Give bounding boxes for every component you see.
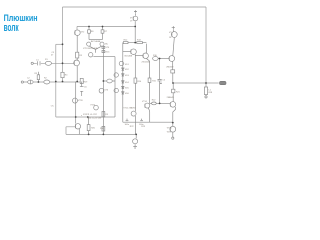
transistor Q9 cascode xyxy=(131,49,137,55)
capacitor C1 xyxy=(38,61,40,65)
node comp xyxy=(159,58,161,60)
wire Q1 emitter xyxy=(76,66,78,82)
resistor R17 xyxy=(171,70,175,73)
resistor R8 xyxy=(102,46,105,48)
svg-text:x: x xyxy=(81,115,82,117)
resistor R19 xyxy=(80,78,83,83)
resistor R3 shunt xyxy=(37,72,39,82)
diode D3 xyxy=(122,81,124,83)
diode D1 xyxy=(122,68,124,70)
transistor Q19 top cs xyxy=(133,16,138,21)
wire mid link xyxy=(103,80,107,82)
wire bottom rail stub xyxy=(66,127,76,135)
wire R17 to out xyxy=(172,73,174,83)
resistor R4 feedback on rail xyxy=(61,72,64,77)
resistor R11 xyxy=(107,79,112,83)
svg-text:2SC1845: 2SC1845 xyxy=(142,61,151,63)
diode D5b xyxy=(122,92,124,94)
wire bottom rail xyxy=(66,133,136,135)
node bus a xyxy=(88,26,90,28)
wire left rail upper xyxy=(62,7,64,72)
wire pair top bracket xyxy=(89,39,103,41)
node bus b xyxy=(102,26,104,28)
node fb wire xyxy=(55,81,57,83)
label net mark xyxy=(160,82,162,85)
resistor R7 bus drop xyxy=(102,27,104,40)
resistor R15 xyxy=(148,78,151,83)
resistor R1 xyxy=(45,61,51,65)
wire top bus xyxy=(77,26,135,28)
wire feedback bottom xyxy=(56,116,115,118)
wire top rail xyxy=(63,6,207,8)
resistor R9 xyxy=(102,112,105,117)
node vas top xyxy=(134,42,136,44)
wire Q18 collector xyxy=(172,29,174,31)
transistor Q20 left low xyxy=(75,82,77,124)
wire Q9 base xyxy=(123,51,131,53)
node out1 xyxy=(172,82,174,84)
resistor R10 xyxy=(102,126,105,131)
svg-text:2SB649: 2SB649 xyxy=(167,97,175,99)
wire VAS out xyxy=(153,58,170,60)
resistor R12 xyxy=(123,42,128,44)
wire pair emitters join xyxy=(90,46,102,53)
wire Q15 collector xyxy=(172,93,174,102)
node rail input xyxy=(62,62,64,64)
wire Q1 collector xyxy=(76,58,78,60)
transistor Q2 current source xyxy=(75,30,81,36)
resistor R20 xyxy=(87,125,90,131)
wire feedback vertical xyxy=(55,44,57,117)
node vbe xyxy=(172,122,174,124)
wire tail to rail xyxy=(93,56,115,58)
transistor Q10 xyxy=(119,61,123,65)
wire input top xyxy=(33,62,74,64)
output terminal X5 xyxy=(220,81,227,84)
diode D2 xyxy=(122,74,124,76)
resistor R13 xyxy=(137,42,143,44)
transistor Q3 input pair left xyxy=(87,42,91,46)
transistor Q18 predriver xyxy=(171,32,177,38)
svg-text:2SD669: 2SD669 xyxy=(166,67,174,69)
wire Q4 collector chain xyxy=(102,47,104,135)
resistor R6 bus drop xyxy=(88,27,90,40)
wire R5 to current source xyxy=(76,36,78,53)
svg-text:BC546B: BC546B xyxy=(91,41,101,43)
node mid xyxy=(103,80,105,82)
node out2 xyxy=(205,82,207,84)
wire Q12 stem xyxy=(135,134,136,146)
node Q1 emitter xyxy=(76,81,78,83)
transistor Q12 output low xyxy=(133,139,138,144)
svg-text:BC546B: BC546B xyxy=(125,56,133,58)
wire VAS top xyxy=(123,42,147,44)
wire lower driver base xyxy=(150,102,171,104)
wire R20 chain xyxy=(88,117,90,134)
wire right rail xyxy=(205,7,207,83)
transistor Q14 xyxy=(145,103,150,108)
resistor R22 xyxy=(152,102,157,105)
wire left rail lower xyxy=(62,78,64,82)
capacitor C4 xyxy=(140,119,143,123)
resistor R8b xyxy=(102,50,105,52)
transistor Q4 input pair right xyxy=(100,42,104,46)
power flag plus top mid xyxy=(134,10,137,13)
wire bus to VAS xyxy=(134,27,136,43)
resistor R16 xyxy=(153,57,159,61)
node drv xyxy=(159,103,161,105)
resistor R2 xyxy=(44,80,50,84)
svg-text:VT11 2SA992: VT11 2SA992 xyxy=(123,107,136,110)
node fb2 xyxy=(87,116,89,118)
power flag minus xyxy=(133,147,137,149)
wire input bottom xyxy=(23,81,80,83)
wire output line xyxy=(173,82,219,84)
wire bus corner drop xyxy=(76,27,78,31)
wire Q17 collector xyxy=(173,38,175,56)
node bot3 xyxy=(135,134,137,136)
resistor R14 xyxy=(134,78,137,83)
svg-text:VT3 BC546B: VT3 BC546B xyxy=(83,48,98,50)
input terminal X2 xyxy=(21,81,23,83)
svg-text:R24 0.22 5W: R24 0.22 5W xyxy=(87,118,102,120)
transistor Q1 xyxy=(74,60,80,66)
capacitor C2 xyxy=(28,80,33,84)
terminal X3 xyxy=(172,137,174,139)
transistor Q15 lower driver xyxy=(170,102,176,108)
transistor Q7 xyxy=(114,73,118,77)
capacitor C5 xyxy=(158,80,162,81)
transistor Q17 driver xyxy=(169,56,175,62)
wire lower bias xyxy=(123,121,173,123)
resistor R5 xyxy=(76,52,79,58)
transistor Q5 tail source xyxy=(89,53,93,57)
wire Q21 emitter xyxy=(78,129,80,135)
diode D4 xyxy=(122,86,124,88)
capacitor C3 xyxy=(126,119,129,123)
node bot1 xyxy=(88,134,90,136)
input terminal X1 xyxy=(31,62,33,64)
power flag plus top right xyxy=(172,26,175,29)
wire Q17 emitter xyxy=(172,61,174,69)
zobel R18 xyxy=(205,83,207,87)
wire feedback tap xyxy=(56,43,63,45)
svg-text:100n: 100n xyxy=(125,124,129,126)
wire Q19 stem xyxy=(134,13,136,26)
wire Q14 emitter xyxy=(148,108,150,122)
resistor R21 xyxy=(172,89,175,93)
node input shunt xyxy=(38,81,40,83)
transistor Q21 xyxy=(75,124,80,129)
wire Q9 emitter tap xyxy=(135,55,143,57)
node bot2 xyxy=(103,134,105,136)
wire Q15 emitter xyxy=(173,107,176,123)
wire diode chain vertical xyxy=(122,43,124,123)
svg-text:R21 0.22: R21 0.22 xyxy=(83,114,98,116)
transistor Q6 xyxy=(99,88,104,93)
wire mid link2 xyxy=(112,57,115,117)
wire comp vertical xyxy=(159,59,161,104)
capacitor C6 xyxy=(80,82,84,97)
transistor Q22 xyxy=(94,105,99,110)
wire Q13 emitter chain xyxy=(147,58,150,103)
node rail tap xyxy=(62,43,64,45)
wire Q13 collector xyxy=(145,44,147,54)
transistor Q8 xyxy=(114,88,118,92)
node fb1 xyxy=(75,116,77,118)
svg-text:волк: волк xyxy=(4,22,19,34)
node rail fb xyxy=(62,81,64,83)
transistor Q16 vbe xyxy=(170,126,176,132)
node bus c xyxy=(134,26,136,28)
terminal X4 xyxy=(205,96,207,98)
transistor Q13 xyxy=(143,53,149,59)
transistor Q11 xyxy=(131,111,136,116)
wire VAS chain mid xyxy=(134,54,136,134)
wire R21 up xyxy=(172,83,174,89)
